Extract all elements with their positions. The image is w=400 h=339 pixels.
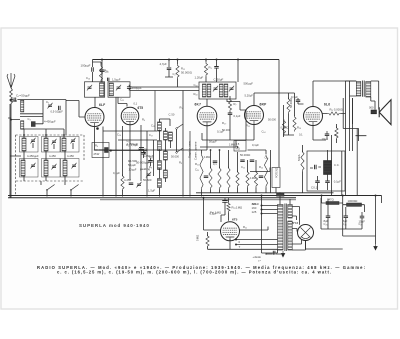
svg-text:Regolaz. sens.: Regolaz. sens. [188,140,192,158]
svg-text:000: 000 [369,106,374,110]
svg-text:50-500µµF: 50-500µµF [136,161,150,165]
wire 4,7uF drop [168,60,170,68]
left edge tick [8,117,11,119]
band bank cell 3 [61,137,80,153]
svg-text:125: 125 [252,210,257,214]
capacitor det c2 [213,161,218,163]
junction bus x169 [168,59,170,61]
wire bus B [196,192,334,194]
svg-text:R₁₁: R₁₁ [195,162,199,166]
wire sec taps [292,207,305,251]
svg-text:10 µµF: 10 µµF [129,167,137,171]
svg-text:R₂₂ 1 MΩ: R₂₂ 1 MΩ [232,206,243,210]
svg-text:0,5: 0,5 [236,142,240,146]
trimmer osc m3 [146,172,151,178]
wire bus C [8,195,382,197]
trimmer t11 [51,139,56,145]
svg-text:4-450µµF: 4-450µµF [27,154,39,158]
power transformer primary [278,205,284,251]
junction bank1 [23,134,25,136]
junction bus x206 [205,59,207,61]
wire bleeder leads [302,145,304,193]
wire cath r [336,124,338,143]
svg-text:C₂₁: C₂₁ [265,156,269,160]
wire rect out [305,241,307,250]
junction sel b [261,209,263,211]
wire x122 vertical [122,126,124,176]
svg-text:0,1µF: 0,1µF [234,114,241,118]
capacitor det c1 [204,176,209,178]
svg-text:50.000Ω: 50.000Ω [240,153,250,157]
junction tap a [235,239,237,241]
svg-text:50.000: 50.000 [268,118,276,122]
band coil L12 [62,138,66,151]
svg-text:C₁₅: C₁₅ [241,165,245,169]
capacitor filter C2 8uF [360,216,365,218]
wire res top lead [177,60,179,88]
resistor R vol [264,155,267,188]
svg-text:C. 50µF: C. 50µF [214,78,224,82]
trimmer in T1 box [87,85,92,91]
trimmer t10 [30,138,35,144]
capacitor 4,7uF [167,68,172,70]
svg-text:R₁₇ 5.000Ω: R₁₇ 5.000Ω [330,108,343,112]
wire osc top [159,119,170,126]
svg-text:C₁₆: C₁₆ [86,76,90,80]
RF coil L3 [109,83,113,96]
trimmer osc pad [136,182,141,188]
junction sel a [261,205,263,207]
junction bus2 a [261,195,263,197]
diode load box [234,141,246,152]
svg-text:R₁₄: R₁₄ [297,126,301,130]
oscillator coil Le [158,161,162,170]
svg-text:1,5µµF: 1,5µµF [112,77,121,81]
wire R eye upper leads [228,198,230,220]
wire mains taps [236,206,278,245]
trimmer in T2 box [116,85,121,91]
wire coup [298,98,304,104]
resistor R V3 screen [228,99,231,112]
wire ant lower links [11,100,66,135]
wire x333 drop [332,135,342,196]
wire antenna lead down [10,104,12,198]
RF transformer T2 box [108,82,130,97]
wire avc links [93,62,102,82]
wire eye wiring [204,198,226,236]
svg-text:1 MΩ: 1 MΩ [250,176,256,180]
svg-text:SUPERLA mod 940·1940: SUPERLA mod 940·1940 [79,223,150,228]
svg-text:4-450µµF: 4-450µµF [127,142,139,146]
wire grid V5 wires [254,93,295,137]
svg-text:6T5: 6T5 [138,106,144,110]
junction bus x177 [177,59,179,61]
wire V4 down [246,125,254,141]
svg-text:10000Ω: 10000Ω [348,199,358,203]
wire field link [343,98,358,136]
wire caps tops [328,199,362,230]
speaker horn [379,100,391,125]
svg-text:C₃: C₃ [28,117,31,121]
wire OT sec to speaker [371,81,379,110]
trimmer IFT1 a [213,86,218,92]
junction osc cap [144,152,146,154]
resistor bleeder [301,151,304,172]
junction bus x216 [216,59,218,61]
capacitor Cavc [92,67,94,72]
svg-text:C₁₀: C₁₀ [120,98,124,102]
wire V5 cathode [313,126,326,141]
svg-text:0,5-10µµF: 0,5-10µµF [51,110,64,114]
svg-text:C.C.: C.C. [334,163,340,167]
capacitor above IFT1 [214,67,219,69]
svg-text:0,1µF: 0,1µF [217,130,224,134]
svg-text:Comm. gamme: Comm. gamme [194,141,198,160]
svg-text:4,7µF: 4,7µF [160,62,167,66]
svg-text:C. 50: C. 50 [169,113,175,117]
svg-text:0,1: 0,1 [299,133,303,137]
svg-text:R₆: R₆ [95,144,98,148]
output transformer core [362,81,364,97]
capacitor coupling V5 [296,100,301,102]
wire filter wiring [322,196,382,237]
oscillator box [92,143,109,158]
wire h140 [118,139,157,141]
svg-text:C₂: C₂ [46,100,49,104]
chassis tick [356,129,367,196]
svg-text:R ₁₀: R ₁₀ [222,121,226,125]
junction det a [210,149,212,151]
resistor R extra V4V5 [282,120,285,135]
svg-text:0,1µF: 0,1µF [291,95,298,99]
trimmer t14 [51,164,56,170]
wire top bus [93,59,280,61]
wire x190 vertical [189,131,191,197]
wire chassis bus main [8,197,296,199]
resistor filter 10000 [347,203,362,206]
resistor R det 3 [218,167,221,190]
svg-text:1,20µF: 1,20µF [195,76,204,80]
capacitor det c5 [259,176,264,178]
svg-text:6 R P: 6 R P [260,103,268,107]
svg-text:0,1µF: 0,1µF [334,180,341,184]
resistor R det extra [227,167,230,190]
speaker voice coil [371,110,377,114]
svg-text:c. c. (16,5-25 m), c. (19-50 m: c. c. (16,5-25 m), c. (19-50 m), m. (200… [57,270,331,275]
wire transformer top feeds [280,196,290,204]
antenna coil L1b [21,121,24,129]
wire V5 top bus [313,80,356,82]
svg-text:R₃: R₃ [209,66,212,70]
junction bus2 d [375,195,377,197]
wire left net y100 [66,101,85,118]
svg-text:100µµF: 100µµF [132,86,142,90]
wire mains selector rail [261,196,263,254]
resistor R det 6 [254,171,257,188]
field coil box [307,151,345,191]
svg-text:R₁₈: R₁₈ [194,92,198,96]
capacitor osc m2 [148,161,153,163]
wire x279 drop [278,60,280,168]
svg-text:C₂₅: C₂₅ [324,222,328,226]
antenna coil L1a [21,100,24,112]
wire ant to C1 [11,99,13,101]
wire x103 vertical [102,127,104,197]
tube V7 rectifier [298,225,314,241]
capacitor C V3 [228,113,233,115]
trimmer IFT1 b [229,86,234,92]
svg-text:R₉: R₉ [149,165,152,169]
wire IFT1 to V3 [206,99,208,106]
junction tap b [235,244,237,246]
svg-text:0,1µF: 0,1µF [252,143,259,147]
wire coupling lines [130,87,199,131]
wire trf bottom [262,250,278,255]
svg-text:R₁₀: R₁₀ [246,124,250,128]
power transformer secondary lower [288,221,292,250]
band coil L13 [21,160,25,176]
wire field internal [310,150,328,190]
wire box to cap [109,150,148,152]
svg-text:R₇: R₇ [234,102,237,106]
resistor R sc V5 [293,116,296,132]
resistor R eye 1M [206,235,209,248]
fuse box on bus [277,193,285,196]
trimmer t15 [71,163,76,169]
junction bank2 [45,134,47,136]
capacitor det c4 [250,160,255,162]
wire V5 plate top [312,81,314,107]
resistor R det 4 [236,171,239,188]
wire V5 grid lead [323,113,346,115]
band switch dashed enclosure [16,135,85,195]
svg-text:0,1µF: 0,1µF [113,171,120,175]
capacitor det c3 [240,160,245,162]
wire det links [202,150,267,197]
tube V2 6D6 [121,107,139,125]
resistor Ravc [99,65,102,82]
dark wiper in oscillator box [104,147,108,153]
svg-text:6 L 6: 6 L 6 [324,103,330,107]
capacitor 100uuF [127,87,132,89]
oscillator coil Lb [164,131,168,140]
junction bus2 e [203,197,205,199]
svg-text:4-450: 4-450 [124,178,131,182]
wire diodo [266,253,281,255]
junction bus2 f [279,192,281,194]
svg-text:R₈: R₈ [179,161,182,165]
oscillator coil Lg [158,179,162,188]
wire cell divider lower [20,116,43,118]
junction osc a [159,130,161,132]
capacitor C into T2 [108,78,109,82]
svg-text:R₁₂: R₁₂ [259,165,263,169]
svg-text:R₂₁: R₂₁ [243,225,247,229]
band bank cell 2 [42,137,61,153]
svg-text:0,1: 0,1 [134,102,138,106]
svg-text:50 µµF: 50 µµF [128,163,136,167]
svg-text:25 W: 25 W [94,152,100,156]
power transformer core [285,204,286,252]
oscillator coil Ld [164,151,168,160]
oscillator coil Lc [158,141,162,151]
ground arrow mid [281,251,285,257]
capacitor osc dark [139,148,144,150]
wire OT left rails [346,81,357,196]
wire det extra [202,133,246,193]
svg-text:6T5: 6T5 [232,218,238,222]
wire cap above IFT1 leads [216,60,218,83]
junction bank3 [63,134,65,136]
resistor R det 2 [209,167,212,190]
wire vol box tail [271,150,277,193]
svg-text:1 MΩ: 1 MΩ [204,155,210,159]
field coil choke [324,161,332,175]
capacitor cathode V5 [325,134,330,136]
wire x116 vertical [115,97,117,196]
svg-text:R 1.500: R 1.500 [128,159,137,163]
junction bus2 b [321,195,323,197]
capacitor pad1 [129,183,134,185]
junction bus x102 [101,59,103,61]
switch S3 wave band [46,185,54,191]
wire box feeds [95,60,127,108]
wire h131 [103,130,157,132]
svg-text:50.000: 50.000 [171,155,179,159]
wire bank to bus [41,181,71,197]
svg-text:5 MΩ: 5 MΩ [196,235,200,241]
svg-text:C₁₈: C₁₈ [194,83,198,87]
band bank cell 6 [61,159,80,178]
wire bus D [100,199,296,201]
svg-text:4-450: 4-450 [67,154,74,158]
svg-text:50 mA: 50 mA [298,154,301,161]
wire cath cap leads [326,131,328,140]
capacitor C2 [59,106,61,111]
svg-text:1 MΩ: 1 MΩ [229,143,235,147]
junction osc c [159,168,161,170]
svg-text:100µµF: 100µµF [81,64,91,68]
resistor R eye upper [227,202,230,213]
wire V2 down [129,125,131,180]
wire osc right [170,91,183,197]
wire left rail bottom [9,104,11,198]
capacitor +diodo [273,251,275,255]
wire x147 vertical [146,131,148,197]
svg-text:10µF: 10µF [322,137,329,141]
svg-text:POTENZ.: POTENZ. [276,167,279,178]
capacitor osc m1 [141,153,146,155]
resistor R top [176,64,179,79]
band coil L14 [44,160,48,176]
resistor R det 1 [200,154,203,190]
svg-text:C₁₄: C₁₄ [262,130,266,134]
svg-text:R₅: R₅ [180,106,183,110]
band coil L11 [44,138,48,151]
ground arrow right [374,244,378,250]
oscillator coil Lf [164,170,168,178]
RF transformer T1 box [85,82,105,97]
band switch dashed line [16,180,84,182]
capacitor eye [222,201,228,203]
band bank cell 1 [20,137,39,153]
wire R above IFT1 leads [205,60,207,83]
svg-text:C₁₁: C₁₁ [151,124,155,128]
capacitor filter C1 8uF [344,216,349,218]
wire bank tops [10,129,64,156]
switch S4 wave band [70,185,78,191]
band coil L15 [63,160,67,176]
svg-text:500 µµF: 500 µµF [244,82,254,86]
wire cap100 leads [128,85,130,91]
wire osc m leads [144,150,151,166]
band coil L10 [22,138,26,151]
svg-text:C₁₂: C₁₂ [105,70,109,74]
output transformer secondary [366,82,371,98]
capacitor C1 [14,98,16,102]
svg-text:C₂: C₂ [173,72,176,76]
trimmer t13 [30,163,35,169]
wire C1 to net [17,99,66,101]
volume box [272,168,280,188]
IF coil L5a [219,84,223,97]
trimmer ant upper [47,103,52,109]
svg-text:+ diodo: + diodo [253,255,262,259]
junction osc b [159,149,161,151]
svg-text:C₁₉: C₁₉ [149,155,153,159]
wire x122 tail [122,190,124,197]
wire IFT1 feed [237,60,239,83]
output transformer primary [356,82,361,97]
resistor R grid V5 [287,98,290,114]
capacitor on x102 drop [100,70,105,72]
wire bus left corner down [92,60,94,68]
wire grid line to V1 [10,100,17,102]
wire V3 right bits [230,96,246,140]
power transformer secondary upper [288,205,292,219]
svg-text:5,20µF: 5,20µF [245,94,254,98]
wire x153 vertical [153,140,155,176]
IF transformer IFT1 box [199,82,236,99]
wire V1 cathode down [94,127,96,151]
junction V1 cathode [96,127,99,130]
resistor R stopper [328,112,341,115]
tube V5 6L6 output [304,107,323,126]
svg-text:4-450: 4-450 [49,154,56,158]
svg-text:47Ω: 47Ω [329,198,334,202]
switch S1 [176,124,183,129]
trimmer t12 [70,138,75,144]
capacitor field c1 [315,165,317,170]
svg-text:50.000 Ω: 50.000 Ω [181,71,192,75]
capacitor field c2 [315,181,320,183]
wire bus stub right [376,195,382,197]
svg-text:C₁₇: C₁₇ [149,133,153,137]
wire right rail [375,196,377,245]
svg-text:0,1: 0,1 [213,162,217,166]
wire caps bottom [306,198,376,249]
svg-text:6 K 7: 6 K 7 [195,103,202,107]
junction det c [237,146,239,148]
svg-text:c ≈: c ≈ [258,260,262,263]
svg-text:50-500: 50-500 [143,178,152,182]
wire bank verticals [24,129,73,181]
svg-text:T: T [239,245,241,249]
tube V1 6A7 converter [85,108,104,127]
svg-text:50.000Ω: 50.000Ω [289,98,293,108]
IF coil L4a [202,84,206,97]
svg-text:0,1µF: 0,1µF [210,212,218,216]
